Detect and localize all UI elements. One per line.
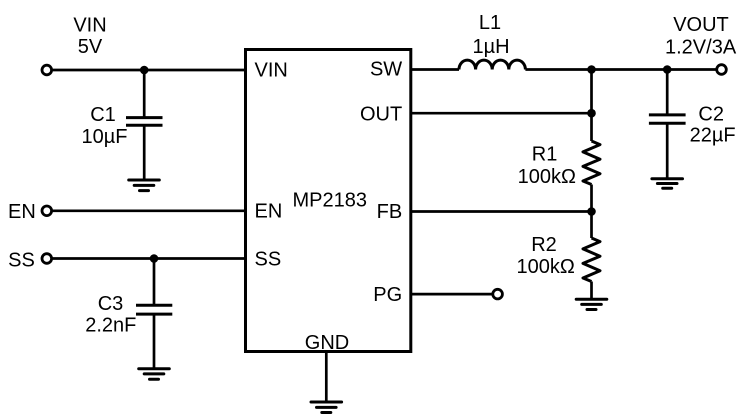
svg-text:VIN: VIN (255, 60, 288, 82)
wire C1 bottom (143, 125, 146, 180)
resistor R2 (517, 234, 600, 282)
svg-text:10µF: 10µF (82, 126, 128, 148)
label VIN 5V (73, 15, 106, 58)
svg-text:C3: C3 (98, 293, 124, 315)
node SS/C3 junction (150, 254, 159, 263)
wire R2 to ground (590, 282, 593, 300)
pin PG label (373, 284, 402, 306)
terminal VIN (42, 65, 52, 75)
wire SW node down to OUT node (590, 70, 593, 114)
node OUT/R1 junction (587, 109, 596, 118)
pin OUT label (360, 103, 402, 125)
pin SW label (370, 58, 402, 80)
svg-text:C1: C1 (90, 104, 116, 126)
wire PG pin to PG terminal (411, 293, 498, 296)
terminal EN (42, 206, 52, 216)
pin SS label (255, 249, 282, 271)
svg-text:22µF: 22µF (690, 124, 736, 146)
node VIN/C1 junction (140, 66, 149, 75)
ground C1 (129, 180, 160, 191)
wire inductor to VOUT (525, 68, 721, 71)
wire EN input to pin EN (47, 209, 246, 212)
pin FB label (377, 201, 403, 223)
svg-text:100kΩ: 100kΩ (517, 256, 575, 278)
pin VIN label (255, 60, 288, 82)
svg-text:SS: SS (255, 249, 282, 271)
wire C2 top (666, 70, 669, 115)
svg-text:GND: GND (305, 332, 349, 354)
svg-text:100kΩ: 100kΩ (518, 166, 576, 188)
ground C3 (139, 369, 170, 380)
terminal SS (42, 254, 52, 264)
terminal VOUT (717, 65, 727, 75)
inductor L1 (459, 12, 525, 69)
svg-text:2.2nF: 2.2nF (85, 315, 136, 337)
svg-text:PG: PG (373, 284, 402, 306)
label EN (8, 201, 36, 223)
svg-text:5V: 5V (78, 36, 103, 58)
svg-text:SS: SS (8, 249, 35, 271)
capacitor C2 (649, 103, 736, 146)
node FB junction (587, 207, 596, 216)
ground C2 (652, 179, 683, 189)
svg-text:VIN: VIN (73, 15, 106, 37)
wire C3 bottom (153, 314, 156, 369)
svg-text:EN: EN (255, 201, 283, 223)
wire VIN input to pin VIN (47, 69, 246, 72)
wire C3 top (153, 259, 156, 306)
svg-text:R2: R2 (531, 234, 557, 256)
terminal PG (493, 289, 503, 299)
label VOUT 1.2V/3A (665, 14, 737, 58)
svg-text:C2: C2 (698, 103, 724, 125)
pin EN label (255, 201, 283, 223)
svg-text:1.2V/3A: 1.2V/3A (665, 36, 737, 58)
svg-text:VOUT: VOUT (673, 14, 729, 36)
pin GND label (305, 332, 349, 354)
resistor R1 (518, 141, 600, 188)
wire FB pin to FB node (411, 210, 592, 213)
svg-text:1µH: 1µH (472, 36, 509, 58)
wire FB node to R2 (590, 212, 593, 239)
ground R2 (576, 299, 607, 309)
wire SW pin to inductor (411, 68, 459, 71)
node VOUT/C2 junction (663, 65, 672, 74)
capacitor C1 (82, 104, 163, 148)
svg-text:FB: FB (377, 201, 403, 223)
wire OUT pin to R1 top node (411, 112, 592, 115)
svg-text:OUT: OUT (360, 103, 402, 125)
wire C1 top (143, 70, 146, 118)
capacitor C3 (85, 293, 172, 337)
wire GND pin down (325, 352, 328, 403)
label SS (8, 249, 35, 271)
op-amp U1 MP2183 IC body (246, 50, 411, 352)
wire SS input to pin SS (47, 257, 246, 260)
wire C2 bottom (666, 123, 669, 178)
svg-text:MP2183: MP2183 (293, 189, 368, 211)
svg-text:EN: EN (8, 201, 36, 223)
svg-text:R1: R1 (532, 144, 558, 166)
svg-text:SW: SW (370, 58, 402, 80)
wire OUT node to R1 (590, 113, 593, 141)
svg-text:L1: L1 (479, 12, 501, 34)
wire R1 to FB node (590, 185, 593, 212)
node SW/R1 junction (587, 65, 596, 74)
ground GND pin (311, 402, 342, 413)
